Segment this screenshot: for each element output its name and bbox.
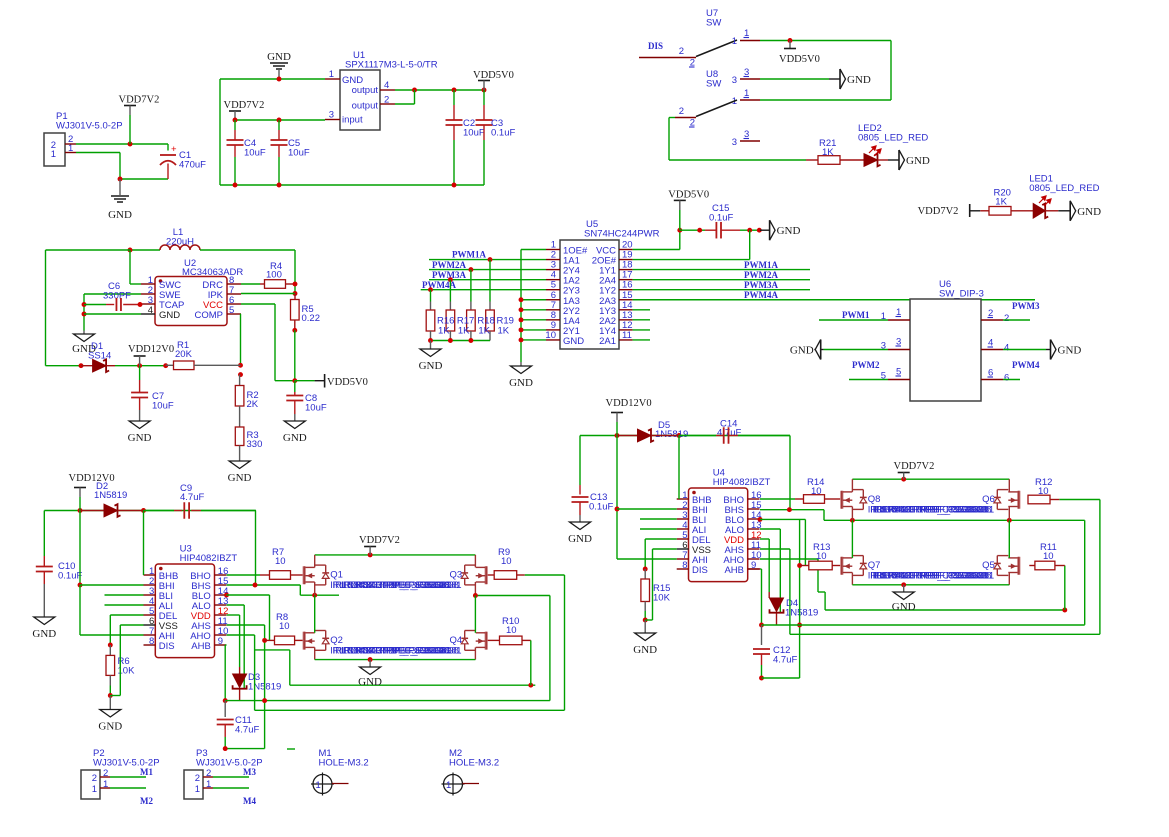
svg-text:GND: GND bbox=[906, 155, 930, 167]
svg-text:PWM4: PWM4 bbox=[1012, 360, 1040, 370]
svg-text:IRLR8433TRPBF_P3533638: IRLR8433TRPBF_P3533638 bbox=[342, 580, 459, 591]
svg-text:4.7uF: 4.7uF bbox=[180, 492, 204, 503]
svg-text:Q2: Q2 bbox=[330, 635, 343, 646]
svg-text:GND: GND bbox=[777, 225, 801, 237]
svg-text:SN74HC244PWR: SN74HC244PWR bbox=[584, 229, 660, 240]
svg-text:Q8: Q8 bbox=[868, 494, 881, 505]
svg-text:5: 5 bbox=[229, 305, 234, 316]
svg-text:0.1uF: 0.1uF bbox=[589, 502, 613, 513]
svg-text:PWM1A: PWM1A bbox=[452, 250, 486, 260]
svg-text:GND: GND bbox=[563, 336, 584, 347]
svg-text:DIS: DIS bbox=[159, 641, 175, 652]
svg-text:Q4: Q4 bbox=[450, 635, 463, 646]
svg-text:1N5819: 1N5819 bbox=[94, 490, 127, 501]
svg-text:GND: GND bbox=[358, 676, 382, 688]
svg-text:SW_DIP-3: SW_DIP-3 bbox=[939, 289, 984, 300]
svg-text:M3: M3 bbox=[243, 767, 256, 777]
svg-text:VDD7V2: VDD7V2 bbox=[918, 206, 959, 217]
svg-text:HIP4082IBZT: HIP4082IBZT bbox=[713, 477, 771, 488]
svg-text:1: 1 bbox=[51, 149, 56, 160]
svg-text:Q5: Q5 bbox=[982, 560, 995, 571]
svg-text:SPX1117M3-L-5-0/TR: SPX1117M3-L-5-0/TR bbox=[345, 60, 438, 71]
svg-text:VDD5V0: VDD5V0 bbox=[668, 189, 709, 200]
svg-text:330: 330 bbox=[247, 439, 263, 450]
svg-text:PWM2: PWM2 bbox=[852, 360, 880, 370]
svg-text:2A1: 2A1 bbox=[599, 336, 616, 347]
svg-text:GND: GND bbox=[1058, 345, 1082, 357]
svg-text:SS14: SS14 bbox=[88, 351, 111, 362]
svg-text:10uF: 10uF bbox=[152, 401, 174, 412]
svg-text:1: 1 bbox=[732, 36, 737, 47]
svg-text:1: 1 bbox=[316, 780, 321, 791]
svg-text:220uH: 220uH bbox=[166, 237, 194, 248]
svg-text:HIP4082IBZT: HIP4082IBZT bbox=[180, 553, 238, 564]
svg-text:VDD12V0: VDD12V0 bbox=[128, 344, 174, 355]
svg-text:DIS: DIS bbox=[648, 41, 663, 51]
svg-text:PWM3: PWM3 bbox=[1012, 301, 1040, 311]
svg-text:Q3: Q3 bbox=[450, 570, 463, 581]
svg-text:GND: GND bbox=[892, 601, 916, 613]
svg-text:SW: SW bbox=[706, 79, 721, 90]
svg-text:0.1uF: 0.1uF bbox=[58, 571, 82, 582]
svg-text:Q6: Q6 bbox=[982, 494, 995, 505]
svg-text:10: 10 bbox=[816, 551, 827, 562]
svg-text:GND: GND bbox=[568, 533, 592, 545]
svg-text:GND: GND bbox=[128, 432, 152, 444]
svg-text:VDD5V0: VDD5V0 bbox=[473, 70, 514, 81]
svg-text:+: + bbox=[171, 144, 177, 155]
svg-text:GND: GND bbox=[790, 345, 814, 357]
svg-text:GND: GND bbox=[159, 310, 180, 321]
svg-text:DIS: DIS bbox=[692, 565, 708, 576]
svg-text:10uF: 10uF bbox=[463, 128, 485, 139]
svg-text:PWM2A: PWM2A bbox=[744, 270, 778, 280]
svg-text:10: 10 bbox=[1043, 551, 1054, 562]
svg-text:4.7uF: 4.7uF bbox=[235, 725, 259, 736]
svg-text:1K: 1K bbox=[478, 326, 490, 337]
svg-text:output: output bbox=[352, 101, 379, 112]
svg-text:COMP: COMP bbox=[195, 310, 224, 321]
svg-text:2: 2 bbox=[679, 46, 684, 57]
svg-text:10K: 10K bbox=[653, 593, 671, 604]
svg-text:0.1uF: 0.1uF bbox=[491, 128, 515, 139]
svg-text:IRLR8433TRPBF_P3533638: IRLR8433TRPBF_P3533638 bbox=[874, 571, 991, 582]
svg-text:PWM3A: PWM3A bbox=[744, 280, 778, 290]
svg-text:470uF: 470uF bbox=[179, 160, 206, 171]
svg-text:IRLR8433TRPBF_P3533638: IRLR8433TRPBF_P3533638 bbox=[874, 505, 991, 516]
svg-text:GND: GND bbox=[847, 74, 871, 86]
svg-text:10: 10 bbox=[501, 556, 512, 567]
svg-text:11: 11 bbox=[622, 330, 632, 341]
svg-text:output: output bbox=[352, 85, 379, 96]
svg-text:PWM4A: PWM4A bbox=[744, 290, 778, 300]
svg-text:1: 1 bbox=[92, 784, 97, 795]
svg-text:M4: M4 bbox=[243, 796, 256, 806]
svg-text:PWM2A: PWM2A bbox=[432, 260, 466, 270]
svg-text:Q1: Q1 bbox=[330, 570, 343, 581]
svg-text:2: 2 bbox=[92, 773, 97, 784]
svg-text:10: 10 bbox=[279, 621, 290, 632]
svg-text:GND: GND bbox=[108, 209, 132, 221]
svg-text:PWM1A: PWM1A bbox=[744, 260, 778, 270]
svg-text:VDD7V2: VDD7V2 bbox=[119, 95, 160, 106]
svg-text:10: 10 bbox=[545, 330, 556, 341]
svg-text:VDD7V2: VDD7V2 bbox=[224, 100, 265, 111]
svg-text:1K: 1K bbox=[458, 326, 470, 337]
svg-text:4: 4 bbox=[148, 305, 153, 316]
svg-text:2: 2 bbox=[1004, 313, 1009, 324]
svg-text:GND: GND bbox=[633, 644, 657, 656]
svg-text:9: 9 bbox=[218, 636, 223, 647]
svg-text:VDD12V0: VDD12V0 bbox=[606, 398, 652, 409]
svg-text:input: input bbox=[342, 115, 363, 126]
svg-text:AHB: AHB bbox=[191, 641, 211, 652]
svg-text:2: 2 bbox=[679, 106, 684, 117]
svg-text:20K: 20K bbox=[175, 349, 193, 360]
svg-text:1: 1 bbox=[195, 784, 200, 795]
svg-text:1N5819: 1N5819 bbox=[655, 429, 688, 440]
svg-text:0.22: 0.22 bbox=[302, 313, 321, 324]
svg-text:10: 10 bbox=[506, 625, 517, 636]
svg-text:0805_LED_RED: 0805_LED_RED bbox=[858, 133, 928, 144]
svg-text:Q7: Q7 bbox=[868, 560, 881, 571]
svg-text:10uF: 10uF bbox=[244, 148, 266, 159]
svg-text:2: 2 bbox=[195, 773, 200, 784]
svg-text:10uF: 10uF bbox=[305, 403, 327, 414]
svg-text:GND: GND bbox=[283, 432, 307, 444]
svg-text:PWM1: PWM1 bbox=[842, 310, 870, 320]
svg-text:WJ301V-5.0-2P: WJ301V-5.0-2P bbox=[56, 121, 123, 132]
svg-text:0.1uF: 0.1uF bbox=[709, 213, 733, 224]
svg-text:IRLR8433TRPBF_P3533638: IRLR8433TRPBF_P3533638 bbox=[342, 645, 459, 656]
svg-text:1K: 1K bbox=[438, 326, 450, 337]
svg-text:SW: SW bbox=[706, 18, 721, 29]
svg-text:3: 3 bbox=[732, 75, 737, 86]
svg-text:10uF: 10uF bbox=[288, 148, 310, 159]
svg-text:GND: GND bbox=[32, 628, 56, 640]
svg-text:4: 4 bbox=[1004, 343, 1009, 354]
svg-text:10: 10 bbox=[275, 556, 286, 567]
svg-text:VDD5V0: VDD5V0 bbox=[327, 377, 368, 388]
svg-text:M2: M2 bbox=[140, 796, 153, 806]
svg-text:GND: GND bbox=[509, 377, 533, 389]
svg-text:HOLE-M3.2: HOLE-M3.2 bbox=[449, 758, 499, 769]
svg-text:1: 1 bbox=[446, 780, 451, 791]
svg-text:3: 3 bbox=[732, 137, 737, 148]
svg-text:4.7uF: 4.7uF bbox=[773, 655, 797, 666]
svg-text:VDD7V2: VDD7V2 bbox=[894, 461, 935, 472]
svg-text:100: 100 bbox=[266, 270, 282, 281]
svg-text:HOLE-M3.2: HOLE-M3.2 bbox=[319, 758, 369, 769]
svg-text:1K: 1K bbox=[498, 326, 510, 337]
svg-text:GND: GND bbox=[228, 472, 252, 484]
svg-text:8: 8 bbox=[682, 560, 687, 571]
svg-text:GND: GND bbox=[419, 360, 443, 372]
svg-text:GND: GND bbox=[98, 721, 122, 733]
svg-text:VDD7V2: VDD7V2 bbox=[359, 535, 400, 546]
svg-text:0805_LED_RED: 0805_LED_RED bbox=[1029, 183, 1099, 194]
svg-text:VDD5V0: VDD5V0 bbox=[779, 54, 820, 65]
svg-text:GND: GND bbox=[1077, 206, 1101, 218]
svg-text:M1: M1 bbox=[140, 767, 153, 777]
svg-text:6: 6 bbox=[1004, 373, 1009, 384]
svg-text:AHB: AHB bbox=[724, 565, 744, 576]
svg-text:GND: GND bbox=[267, 51, 291, 63]
svg-text:8: 8 bbox=[149, 636, 154, 647]
svg-text:2K: 2K bbox=[247, 399, 259, 410]
